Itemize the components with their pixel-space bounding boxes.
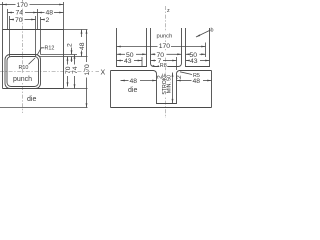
dimension 48 (die left) [121, 78, 157, 85]
dimension 170 (right) [84, 30, 91, 108]
svg-text:punch: punch [13, 76, 32, 83]
punch body (with R8 bottom corners) [151, 28, 182, 67]
die block outline [3, 30, 64, 89]
svg-text:die: die [27, 96, 36, 103]
svg-text:X: X [101, 70, 106, 77]
dimension 74 (right) [72, 55, 79, 89]
dimension 2 (top clearance) [41, 17, 50, 24]
z centerline [166, 6, 171, 118]
svg-text:MIN. 50: MIN. 50 [166, 75, 172, 93]
svg-text:74: 74 [72, 66, 79, 74]
stroke dimension line [172, 73, 174, 104]
R10 label with leader [19, 58, 36, 71]
dimension 43 (right) [186, 58, 210, 65]
svg-text:48: 48 [193, 78, 201, 85]
svg-text:z: z [167, 8, 170, 14]
svg-text:170: 170 [159, 43, 171, 50]
svg-text:170: 170 [17, 2, 29, 9]
extension line x143 [141, 57, 143, 67]
punch (rounded square R10) [7, 57, 39, 87]
top extension lines [3, 2, 64, 57]
extension line x176.5 [176, 57, 178, 70]
svg-text:43: 43 [190, 58, 198, 65]
svg-text:R12: R12 [45, 46, 55, 52]
svg-text:b: b [211, 28, 214, 34]
svg-text:die: die [128, 87, 137, 94]
svg-text:2: 2 [66, 43, 73, 47]
svg-text:2: 2 [46, 17, 50, 24]
svg-text:48: 48 [79, 42, 86, 50]
right holder block [186, 28, 210, 67]
die section outline [111, 71, 212, 108]
dimension 70 (punch width) [151, 50, 182, 59]
svg-text:70: 70 [65, 66, 72, 74]
svg-text:48: 48 [130, 78, 138, 85]
horizontal centerline with X label [0, 70, 106, 77]
dimension 74 (top) [8, 10, 38, 17]
dimension 70 (right) [65, 57, 72, 87]
right extension lines [0, 30, 88, 108]
extension line x205 [205, 43, 207, 58]
dimension 48 (die right) [177, 78, 212, 85]
svg-text:43: 43 [124, 58, 132, 65]
punch label (right view) [156, 32, 174, 39]
punch label [13, 74, 35, 82]
dimension 170 (right view) [117, 42, 206, 50]
dimension 70 (top) [10, 17, 36, 24]
dimension 50 (left) [117, 52, 147, 59]
svg-text:170: 170 [84, 64, 91, 76]
svg-text:R10: R10 [19, 65, 29, 71]
dimension 7 (die clearance) [151, 58, 177, 65]
svg-text:punch: punch [157, 34, 173, 40]
svg-text:48: 48 [46, 10, 54, 17]
svg-text:70: 70 [15, 17, 23, 24]
dimension 2 (right clearance) [66, 43, 73, 62]
R8 label with leader [153, 63, 168, 69]
stroke text (rotated) [162, 73, 173, 97]
vertical centerline [22, 0, 24, 113]
R12 label with leader [37, 46, 54, 56]
die opening (rounded square R12) [5, 55, 41, 89]
svg-text:74: 74 [16, 10, 24, 17]
left holder block [117, 28, 147, 67]
dimension 43 (left) [117, 58, 143, 65]
dimension 170 (top) [0, 0, 64, 9]
R5 label with leader [180, 72, 200, 79]
svg-text:R8: R8 [160, 63, 167, 69]
dimension 48 (right top) [79, 30, 86, 57]
svg-text:2: 2 [176, 75, 183, 79]
dimension 48 (top) [38, 10, 64, 17]
b leader [196, 28, 214, 38]
dimension 50 (right) [186, 52, 206, 59]
